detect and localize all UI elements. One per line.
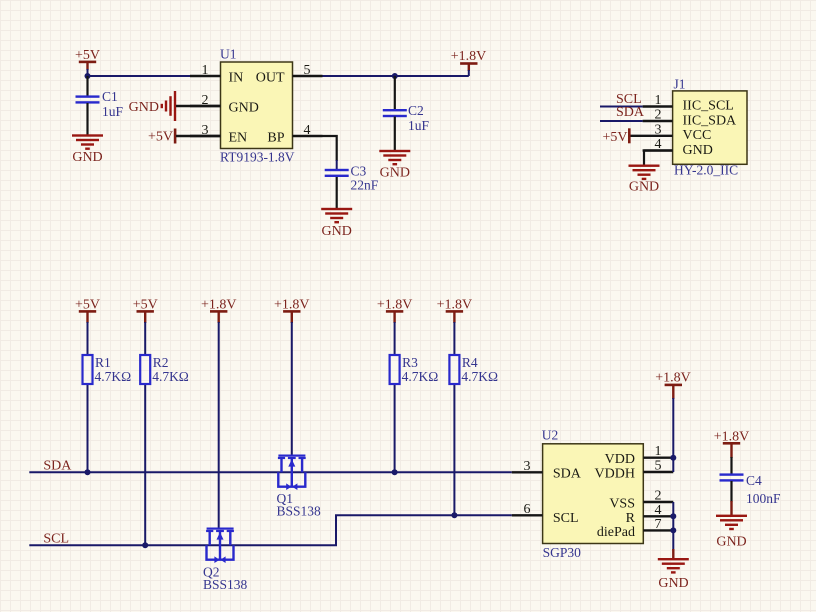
svg-text:4.7KΩ: 4.7KΩ: [95, 369, 132, 384]
svg-text:EN: EN: [229, 131, 248, 146]
svg-text:GND: GND: [658, 576, 688, 591]
svg-text:6: 6: [524, 502, 531, 517]
svg-text:4: 4: [655, 503, 662, 518]
svg-text:SCL: SCL: [43, 532, 69, 547]
svg-text:SDA: SDA: [553, 466, 582, 481]
svg-text:HY-2.0_IIC: HY-2.0_IIC: [674, 162, 738, 177]
svg-text:SDA: SDA: [43, 458, 72, 473]
svg-text:U2: U2: [542, 428, 559, 443]
svg-text:1uF: 1uF: [408, 118, 430, 133]
svg-text:2: 2: [655, 489, 662, 504]
svg-text:VDD: VDD: [605, 452, 635, 467]
svg-text:C3: C3: [351, 164, 367, 179]
svg-text:R2: R2: [153, 355, 169, 370]
svg-text:R: R: [626, 511, 636, 526]
svg-text:22nF: 22nF: [351, 178, 379, 193]
svg-text:1: 1: [202, 63, 209, 78]
svg-text:IN: IN: [229, 71, 244, 86]
svg-text:GND: GND: [380, 166, 410, 181]
svg-text:C4: C4: [746, 473, 762, 488]
svg-text:1: 1: [655, 444, 662, 459]
svg-text:4.7KΩ: 4.7KΩ: [461, 369, 498, 384]
svg-text:4.7KΩ: 4.7KΩ: [402, 369, 439, 384]
svg-text:IIC_SDA: IIC_SDA: [683, 114, 738, 129]
svg-text:R3: R3: [402, 355, 418, 370]
svg-text:GND: GND: [629, 179, 659, 194]
svg-text:+1.8V: +1.8V: [655, 371, 691, 386]
svg-text:BSS138: BSS138: [277, 503, 322, 518]
svg-text:1: 1: [655, 93, 662, 108]
svg-text:4.7KΩ: 4.7KΩ: [152, 369, 189, 384]
svg-text:OUT: OUT: [256, 71, 285, 86]
svg-text:GND: GND: [72, 150, 102, 165]
svg-text:GND: GND: [683, 143, 713, 158]
svg-text:R1: R1: [95, 355, 111, 370]
svg-text:U1: U1: [220, 47, 237, 62]
svg-text:+5V: +5V: [602, 130, 627, 145]
svg-text:GND: GND: [322, 224, 352, 239]
svg-text:BP: BP: [267, 131, 284, 146]
svg-text:SDA: SDA: [616, 105, 645, 120]
svg-text:+5V: +5V: [148, 130, 173, 145]
svg-text:5: 5: [304, 63, 311, 78]
svg-text:RT9193-1.8V: RT9193-1.8V: [220, 150, 295, 165]
svg-text:7: 7: [655, 517, 662, 532]
svg-text:4: 4: [304, 123, 311, 138]
svg-text:VDDH: VDDH: [595, 467, 635, 482]
svg-text:SCL: SCL: [553, 511, 579, 526]
svg-text:J1: J1: [674, 76, 686, 91]
svg-text:SGP30: SGP30: [543, 545, 582, 560]
svg-text:IIC_SCL: IIC_SCL: [683, 99, 734, 114]
svg-text:C2: C2: [408, 103, 424, 118]
svg-text:VCC: VCC: [683, 128, 712, 143]
svg-text:+1.8V: +1.8V: [451, 49, 487, 64]
svg-text:GND: GND: [716, 534, 746, 549]
svg-text:BSS138: BSS138: [203, 577, 248, 592]
svg-text:1uF: 1uF: [102, 104, 124, 119]
svg-text:R4: R4: [462, 355, 478, 370]
svg-text:3: 3: [655, 123, 662, 138]
svg-text:2: 2: [655, 108, 662, 123]
svg-text:C1: C1: [102, 89, 118, 104]
svg-text:100nF: 100nF: [746, 491, 781, 506]
svg-text:GND: GND: [229, 101, 259, 116]
svg-text:5: 5: [655, 459, 662, 474]
svg-text:3: 3: [524, 459, 531, 474]
svg-text:VSS: VSS: [609, 496, 635, 511]
svg-text:diePad: diePad: [597, 525, 635, 540]
svg-text:GND: GND: [129, 100, 159, 115]
